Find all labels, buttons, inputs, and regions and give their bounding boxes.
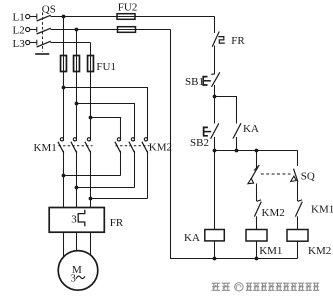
svg-text:FU1: FU1 [96, 61, 116, 73]
svg-text:QS: QS [42, 4, 56, 16]
svg-text:3: 3 [71, 274, 76, 285]
svg-text:3: 3 [71, 214, 77, 226]
svg-text:L1: L1 [13, 12, 25, 24]
svg-text:KM1: KM1 [259, 245, 282, 257]
svg-text:L2: L2 [13, 25, 25, 37]
svg-text:FR: FR [231, 35, 245, 47]
svg-text:KM1: KM1 [311, 203, 333, 215]
svg-text:KM2: KM2 [308, 245, 331, 257]
svg-text:FU2: FU2 [118, 1, 138, 13]
svg-text:SB1: SB1 [185, 76, 204, 88]
svg-text:KM2: KM2 [262, 207, 285, 219]
svg-text:FR: FR [110, 217, 124, 229]
svg-text:KA: KA [184, 232, 200, 244]
svg-text:L3: L3 [13, 38, 26, 50]
svg-text:SQ: SQ [301, 171, 315, 183]
svg-text:KA: KA [243, 123, 259, 135]
svg-text:KM2: KM2 [149, 141, 172, 153]
svg-text:SB2: SB2 [190, 137, 209, 149]
svg-text:KM1: KM1 [34, 142, 57, 154]
